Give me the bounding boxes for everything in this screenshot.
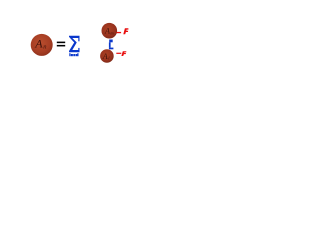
sigma subscript "local" [69,53,70,56]
svg-text:A: A [34,37,43,51]
red dash (bottom force arrow) [116,53,121,54]
blue F glyph between right atoms [109,40,113,43]
summation sigma [69,36,80,52]
white background [0,0,165,213]
svg-text:A: A [102,52,108,61]
equals sign [57,42,65,44]
svg-text:n: n [43,44,46,51]
atom A_l (bottom right circle) [100,49,114,63]
svg-text:A: A [104,27,110,36]
red F label (top) [123,28,128,34]
atom A_m (top right circle) [102,23,118,39]
atom A_n (large circle left) [31,34,53,56]
red F label (bottom) [121,51,126,56]
red dash (top force arrow) [117,32,122,33]
